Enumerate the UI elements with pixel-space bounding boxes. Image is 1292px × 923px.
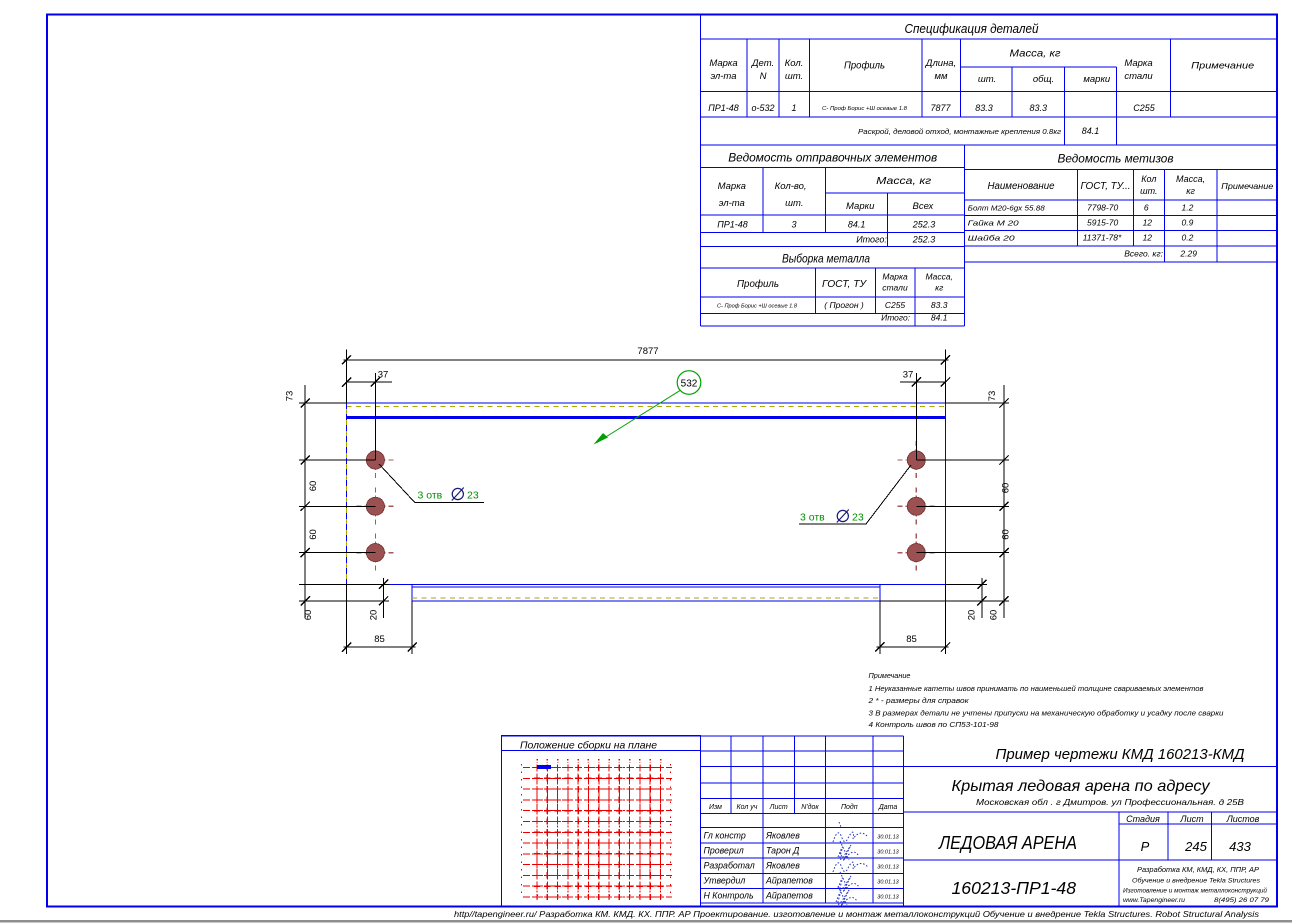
svg-text:30.01.13: 30.01.13 — [877, 865, 899, 871]
svg-text:Гл констр: Гл констр — [704, 830, 746, 840]
svg-text:Яковлев: Яковлев — [765, 861, 800, 871]
svg-text:Примечание: Примечание — [1221, 181, 1273, 191]
svg-text:23: 23 — [852, 512, 864, 524]
label 3 отв ⌀23 (left) — [379, 464, 484, 503]
right end edge — [945, 403, 947, 584]
bottom edge — [412, 600, 880, 602]
svg-text:30.01.13: 30.01.13 — [877, 880, 899, 886]
svg-text:Яковлев: Яковлев — [765, 830, 800, 840]
svg-text:Масса, кг: Масса, кг — [1010, 49, 1061, 60]
svg-text:о-532: о-532 — [751, 103, 774, 113]
svg-text:Кол: Кол — [1141, 174, 1156, 184]
svg-text:8(495) 26 07 79: 8(495) 26 07 79 — [1214, 897, 1269, 904]
svg-text:Подп: Подп — [841, 803, 858, 811]
svg-text:0.9: 0.9 — [1181, 218, 1193, 228]
svg-text:шт.: шт. — [978, 74, 996, 85]
svg-text:Дет.: Дет. — [751, 58, 774, 69]
svg-text:марки: марки — [1083, 74, 1111, 85]
svg-text:7877: 7877 — [637, 346, 658, 357]
dimension 37 right — [915, 373, 917, 460]
dimension 20 right — [981, 578, 983, 618]
svg-text:http//tapengineer.ru/ Разраб: http//tapengineer.ru/ Разработка КМ. КМД… — [454, 910, 1259, 919]
svg-text:60: 60 — [308, 529, 319, 540]
svg-text:84.1: 84.1 — [1082, 126, 1100, 136]
label 3 отв ⌀23 (right) — [799, 465, 911, 524]
svg-text:Итого:: Итого: — [856, 235, 887, 245]
svg-text:Всего. кг:: Всего. кг: — [1124, 249, 1163, 259]
svg-text:Кол-во,: Кол-во, — [775, 181, 807, 192]
svg-text:Проверил: Проверил — [704, 846, 744, 856]
grid intersection crosses — [534, 764, 664, 900]
svg-text:84.1: 84.1 — [931, 313, 948, 323]
svg-text:37: 37 — [903, 370, 914, 381]
svg-text:Н Контроль: Н Контроль — [704, 890, 754, 900]
svg-text:23: 23 — [467, 490, 479, 502]
balloon 532 with leader arrow — [677, 371, 701, 395]
svg-text:3 В размерах детали не учтены: 3 В размерах детали не учтены припуски н… — [869, 709, 1225, 718]
title block right part — [903, 766, 1277, 768]
svg-text:433: 433 — [1229, 839, 1251, 854]
svg-text:Спецификация деталей: Спецификация деталей — [905, 22, 1039, 36]
svg-text:7798-70: 7798-70 — [1087, 203, 1118, 213]
svg-text:Масса, кг: Масса, кг — [876, 176, 931, 187]
left end edge (cut line, dashed) — [346, 403, 348, 584]
svg-text:1: 1 — [791, 103, 796, 113]
svg-text:Положение сборки на плане: Положение сборки на плане — [520, 740, 657, 752]
dimension 85 left — [346, 584, 348, 654]
svg-text:стали: стали — [882, 283, 908, 293]
svg-text:4 Контроль швов по СП53-101-: 4 Контроль швов по СП53-101-98 — [869, 720, 1000, 729]
svg-text:Дата: Дата — [878, 804, 898, 811]
svg-text:Наименование: Наименование — [988, 181, 1055, 192]
svg-text:20: 20 — [369, 610, 380, 621]
svg-text:60: 60 — [308, 481, 319, 492]
svg-text:Марка: Марка — [709, 58, 737, 69]
svg-text:Марка: Марка — [718, 181, 746, 192]
svg-text:3 отв: 3 отв — [800, 512, 825, 524]
svg-text:30.01.13: 30.01.13 — [877, 834, 899, 840]
svg-text:532: 532 — [681, 379, 698, 390]
red grid plan — [536, 765, 538, 900]
svg-text:Раскрой, деловой отход, монтаж: Раскрой, деловой отход, монтажные крепле… — [858, 128, 1062, 136]
svg-text:Марка: Марка — [1124, 58, 1152, 69]
svg-text:Марка: Марка — [882, 272, 908, 282]
svg-text:Примечание: Примечание — [869, 671, 911, 680]
svg-text:С255: С255 — [885, 300, 906, 310]
svg-text:Шайба 20: Шайба 20 — [968, 234, 1016, 243]
svg-text:Длина,: Длина, — [925, 58, 956, 69]
svg-text:245: 245 — [1184, 839, 1207, 854]
svg-text:84.1: 84.1 — [848, 220, 866, 230]
svg-text:Р: Р — [1141, 839, 1150, 854]
svg-text:6: 6 — [1144, 203, 1149, 213]
svg-text:83.3: 83.3 — [975, 103, 993, 113]
svg-text:2.29: 2.29 — [1179, 249, 1197, 259]
svg-text:7877: 7877 — [930, 103, 951, 113]
svg-text:Итого:: Итого: — [881, 313, 911, 323]
svg-text:ЛЕДОВАЯ АРЕНА: ЛЕДОВАЯ АРЕНА — [938, 833, 1077, 853]
svg-text:ПР1-48: ПР1-48 — [708, 103, 739, 113]
svg-text:общ.: общ. — [1033, 74, 1054, 85]
svg-text:Лист: Лист — [769, 804, 788, 811]
svg-text:Лист: Лист — [1179, 814, 1204, 824]
svg-text:Масса,: Масса, — [1176, 174, 1205, 184]
svg-text:Листов: Листов — [1226, 814, 1260, 824]
svg-text:2 * - размеры для справок: 2 * - размеры для справок — [867, 696, 969, 705]
left dimension chain 73/60/60/60 — [304, 385, 306, 618]
svg-text:20: 20 — [967, 610, 978, 621]
svg-text:( Прогон ): ( Прогон ) — [824, 300, 864, 310]
svg-text:N'док: N'док — [801, 803, 819, 811]
svg-text:Марки: Марки — [846, 201, 875, 212]
svg-text:ПР1-48: ПР1-48 — [717, 220, 748, 230]
bottom gray bar — [0, 920, 1292, 922]
svg-text:83.3: 83.3 — [1030, 103, 1048, 113]
svg-text:Профиль: Профиль — [737, 278, 779, 290]
svg-text:Примечание: Примечание — [1191, 61, 1254, 72]
bolt holes 3 отв ⌀23 — [356, 459, 394, 461]
svg-text:Ведомость метизов: Ведомость метизов — [1058, 152, 1174, 166]
svg-text:Пример чертежи КМД 160213-КМ: Пример чертежи КМД 160213-КМД — [996, 747, 1245, 763]
svg-text:Болт М20-6gх 55.88: Болт М20-6gх 55.88 — [968, 204, 1046, 213]
svg-text:60: 60 — [1001, 483, 1012, 494]
svg-text:стали: стали — [1124, 71, 1153, 82]
svg-text:5915-70: 5915-70 — [1087, 218, 1118, 228]
svg-text:С- Проф Борис +Ш осевые 1.8: С- Проф Борис +Ш осевые 1.8 — [717, 304, 797, 310]
svg-text:Всех: Всех — [913, 201, 935, 212]
title block (stamp) — [701, 735, 904, 737]
svg-text:0.2: 0.2 — [1181, 233, 1193, 243]
svg-text:3: 3 — [791, 220, 796, 230]
svg-text:ГОСТ, ТУ: ГОСТ, ТУ — [822, 279, 868, 290]
svg-text:шт.: шт. — [1140, 186, 1157, 196]
svg-text:Московская обл . г Дмитров. у: Московская обл . г Дмитров. ул Профессио… — [976, 797, 1244, 807]
svg-text:Масса,: Масса, — [925, 272, 953, 282]
bottom flange top edge — [347, 583, 946, 585]
panel: Положение сборки на плане — [502, 736, 701, 907]
svg-text:1.2: 1.2 — [1181, 203, 1193, 213]
svg-text:60: 60 — [1001, 529, 1012, 540]
highlighted assembly position (blue bar) — [537, 765, 551, 769]
top flange inner edge (thick) — [347, 416, 946, 419]
svg-text:Кол.: Кол. — [785, 58, 804, 69]
svg-text:Стадия: Стадия — [1126, 814, 1160, 824]
dimension 7877 (overall) — [346, 350, 348, 404]
signatures (blue) — [833, 822, 867, 842]
svg-text:Айрапетов: Айрапетов — [765, 890, 813, 900]
svg-text:Тарон Д: Тарон Д — [766, 846, 799, 856]
svg-text:шт.: шт. — [785, 198, 803, 209]
svg-text:эл-та: эл-та — [710, 71, 736, 82]
dimension 37 left — [374, 373, 376, 460]
svg-text:Разработка КМ, КМД, КХ, ППР, А: Разработка КМ, КМД, КХ, ППР, АР — [1137, 866, 1259, 874]
svg-text:www.Tapengineer.ru: www.Tapengineer.ru — [1123, 897, 1185, 904]
svg-text:12: 12 — [1143, 218, 1153, 228]
svg-text:мм: мм — [934, 71, 948, 82]
svg-text:83.3: 83.3 — [931, 300, 948, 310]
svg-text:85: 85 — [374, 634, 385, 645]
svg-text:73: 73 — [987, 391, 998, 402]
svg-text:С- Проф Борис +Ш осевые 1.8: С- Проф Борис +Ш осевые 1.8 — [822, 106, 908, 112]
svg-text:30.01.13: 30.01.13 — [877, 850, 899, 856]
svg-text:Утвердил: Утвердил — [703, 876, 746, 886]
svg-text:Обучение и внедрение Tekla St: Обучение и внедрение Tekla Structures — [1132, 877, 1261, 885]
svg-text:85: 85 — [906, 634, 917, 645]
table: Ведомость отправочных элементов — [701, 167, 965, 169]
svg-text:11371-78*: 11371-78* — [1083, 233, 1122, 243]
svg-text:эл-та: эл-та — [719, 198, 745, 209]
svg-text:60: 60 — [989, 610, 1000, 621]
svg-text:кг: кг — [1186, 186, 1195, 196]
right dimension chain 73/60/60/60 — [1003, 385, 1005, 618]
part outline: purlin ПР1-48 (blue) — [347, 402, 946, 404]
svg-text:Изм: Изм — [709, 804, 722, 811]
svg-text:Изготовление и монтаж металлок: Изготовление и монтаж металлоконструкций — [1123, 887, 1267, 895]
svg-text:Разработал: Разработал — [704, 861, 755, 871]
svg-text:37: 37 — [378, 370, 389, 381]
table: Ведомость метизов — [965, 168, 1278, 170]
table: Выборка металла — [701, 267, 965, 269]
bottom fold dashed line — [412, 597, 880, 599]
svg-text:252.3: 252.3 — [912, 235, 936, 245]
svg-text:Выборка металла: Выборка металла — [782, 252, 870, 266]
svg-text:Гайка М 20: Гайка М 20 — [968, 219, 1020, 228]
svg-text:Кол уч: Кол уч — [737, 804, 758, 811]
svg-text:60: 60 — [303, 610, 314, 621]
dimension 85 right — [879, 601, 881, 654]
svg-text:С255: С255 — [1133, 103, 1156, 113]
svg-text:ГОСТ, ТУ...: ГОСТ, ТУ... — [1081, 181, 1131, 192]
svg-text:Профиль: Профиль — [844, 60, 885, 72]
svg-text:73: 73 — [285, 391, 296, 402]
bottom notch edges — [411, 584, 413, 601]
table: Спецификация деталей — [701, 38, 1278, 40]
svg-text:Айрапетов: Айрапетов — [765, 876, 813, 886]
svg-text:Крытая ледовая арена по адресу: Крытая ледовая арена по адресу — [952, 778, 1211, 795]
svg-text:30.01.13: 30.01.13 — [877, 894, 899, 900]
svg-text:кг: кг — [935, 283, 943, 293]
dimension 20 left — [383, 578, 385, 618]
svg-text:160213-ПР1-48: 160213-ПР1-48 — [952, 878, 1077, 898]
svg-text:12: 12 — [1143, 233, 1153, 243]
svg-text:252.3: 252.3 — [912, 220, 936, 230]
top flange fold dashed line — [347, 406, 946, 408]
svg-text:3 отв: 3 отв — [418, 490, 443, 502]
svg-text:шт.: шт. — [785, 71, 803, 82]
svg-text:N: N — [760, 71, 767, 82]
svg-text:Ведомость отправочных элементо: Ведомость отправочных элементов — [728, 151, 937, 165]
svg-text:1 Неуказанные катеты швов при: 1 Неуказанные катеты швов принимать по н… — [869, 684, 1204, 693]
